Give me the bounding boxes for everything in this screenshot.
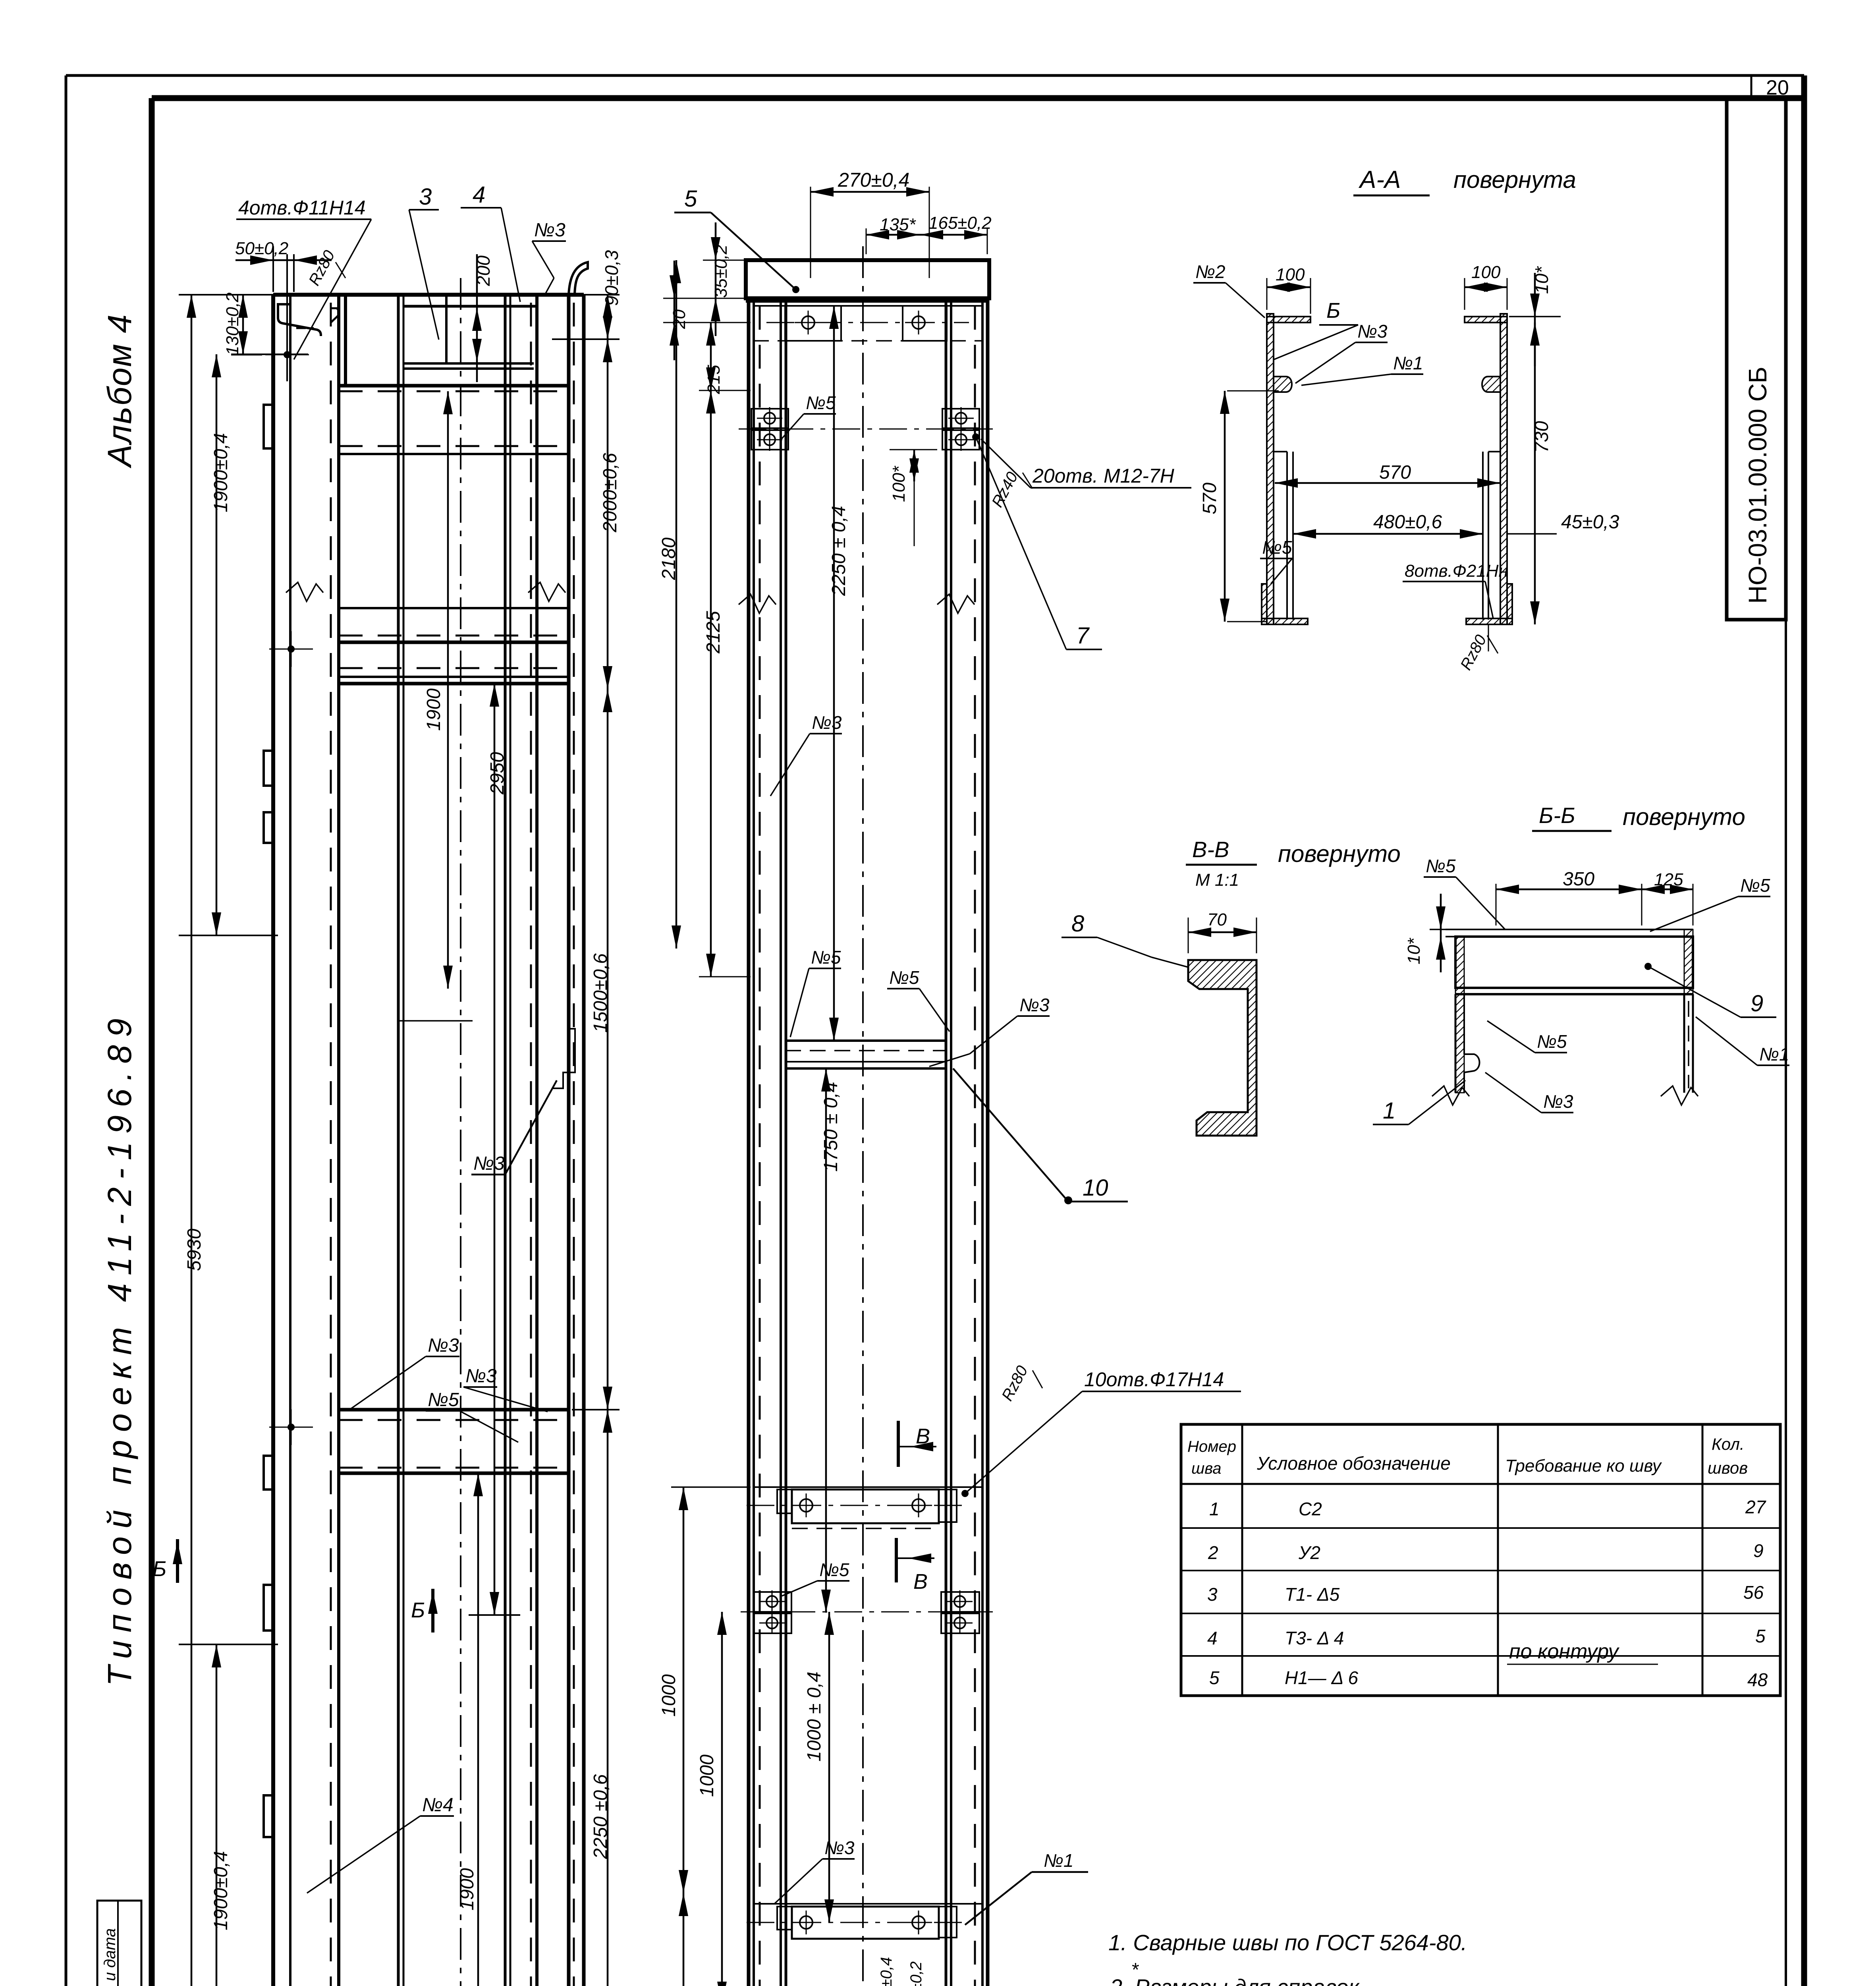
drawing frame (thick) xyxy=(152,95,1804,101)
svg-text:570: 570 xyxy=(1379,462,1411,483)
svg-text:2125: 2125 xyxy=(703,611,724,654)
view 2 top dimension 135* xyxy=(866,228,867,254)
svg-text:50 ±0,4: 50 ±0,4 xyxy=(878,1957,895,1986)
view 2 lower bolt blocks right xyxy=(941,1592,979,1612)
A-A dimension 100 left xyxy=(1266,278,1268,310)
svg-text:№3: №3 xyxy=(465,1366,497,1387)
svg-text:570: 570 xyxy=(1199,483,1220,514)
document number strip НО-03.01.00.000 СБ (vertical) xyxy=(1727,98,1786,620)
dimension 1500±0,6 xyxy=(607,689,609,1410)
svg-text:270±0,4: 270±0,4 xyxy=(838,169,909,191)
svg-text:90±0,3: 90±0,3 xyxy=(601,250,622,306)
svg-text:7: 7 xyxy=(1076,623,1090,649)
Б-Б right leg xyxy=(1683,994,1685,1093)
dimension 1900±0,4 upper xyxy=(231,354,308,355)
view 1 right rail xyxy=(530,303,532,1986)
sheet number box '20' xyxy=(1751,75,1752,98)
svg-text:№3: №3 xyxy=(534,220,566,241)
svg-text:200: 200 xyxy=(473,255,494,286)
svg-text:20отв. М12-7Н: 20отв. М12-7Н xyxy=(1032,465,1175,487)
svg-text:1900±0,4: 1900±0,4 xyxy=(210,433,232,512)
svg-text:С2: С2 xyxy=(1299,1499,1322,1519)
svg-text:25±0,2: 25±0,2 xyxy=(907,1961,925,1986)
dimension 1000 second xyxy=(721,1612,723,1986)
A-A left profile lug xyxy=(1274,377,1292,392)
svg-text:№4: №4 xyxy=(422,1795,454,1816)
svg-text:2180: 2180 xyxy=(658,537,679,580)
svg-text:730: 730 xyxy=(1531,421,1552,453)
svg-text:9: 9 xyxy=(1753,1540,1764,1561)
svg-text:35±0,2: 35±0,2 xyxy=(711,245,731,298)
dimension 1750±0,4 xyxy=(825,1068,827,1613)
svg-text:70: 70 xyxy=(1207,910,1227,929)
svg-text:№2: №2 xyxy=(1195,261,1225,282)
svg-text:2000±0,6: 2000±0,6 xyxy=(600,453,621,533)
section mark В (upper) xyxy=(897,1421,900,1467)
svg-text:№1: №1 xyxy=(1393,353,1423,373)
view 1 crossmember 5 (double) xyxy=(339,1408,569,1412)
svg-text:№1: №1 xyxy=(1759,1044,1789,1064)
view 1 break lines xyxy=(286,582,323,601)
svg-text:3: 3 xyxy=(1207,1584,1218,1605)
svg-text:№3: №3 xyxy=(1357,321,1388,342)
view 2 axis line xyxy=(862,246,864,1986)
svg-text:НО-03.01.00.000 СБ: НО-03.01.00.000 СБ xyxy=(1743,367,1772,604)
A-A right profile lug xyxy=(1482,377,1500,392)
A-A dimension 730 xyxy=(1534,323,1536,624)
A-A dimension 570 vertical xyxy=(1227,390,1279,392)
svg-text:5930: 5930 xyxy=(184,1229,205,1271)
svg-text:швов: швов xyxy=(1708,1459,1748,1477)
svg-text:5: 5 xyxy=(684,186,697,212)
svg-text:20: 20 xyxy=(670,309,689,329)
view 1 top partitions xyxy=(344,295,347,386)
view 2 right rail xyxy=(945,298,948,1986)
svg-text:Т1- Δ5: Т1- Δ5 xyxy=(1285,1584,1340,1605)
view 2 crossmember (upper) xyxy=(785,1039,947,1042)
svg-text:В: В xyxy=(916,1424,930,1448)
view 1 datum targets xyxy=(288,645,295,653)
section mark Б (inside view1) xyxy=(431,1589,434,1632)
svg-text:350: 350 xyxy=(1563,869,1594,890)
view 1: frame side elevation — left rail xyxy=(271,295,275,1986)
view 2 break lines xyxy=(739,594,776,613)
label №3 bracket mid right view1 xyxy=(552,1029,575,1088)
В-В channel profile xyxy=(1188,960,1256,1136)
dimension 2180 xyxy=(676,260,677,949)
svg-text:10отв.Ф17Н14: 10отв.Ф17Н14 xyxy=(1084,1368,1224,1391)
section mark В (lower) xyxy=(895,1538,898,1582)
svg-text:5: 5 xyxy=(1755,1626,1766,1646)
svg-text:9: 9 xyxy=(1751,991,1763,1016)
svg-text:100: 100 xyxy=(1471,263,1501,282)
svg-text:1900: 1900 xyxy=(423,688,444,731)
dimension 200 (view1 top inner) xyxy=(476,254,478,382)
svg-text:2950: 2950 xyxy=(487,752,508,795)
dimension 2000±0,6 xyxy=(607,339,609,689)
A-A right profile inner wall xyxy=(1482,452,1484,620)
svg-text:48: 48 xyxy=(1747,1669,1768,1690)
dimension 20 xyxy=(674,261,676,360)
svg-text:45±0,3: 45±0,3 xyxy=(1561,512,1619,533)
svg-text:по контуру: по контуру xyxy=(1509,1640,1619,1663)
svg-text:В-В: В-В xyxy=(1192,837,1229,862)
dimension 35±0,2 (plate) xyxy=(715,222,717,336)
svg-text:№5: №5 xyxy=(889,967,919,988)
view 2 top dimension 165±0,2 xyxy=(987,228,988,254)
svg-text:Т3- Δ 4: Т3- Δ 4 xyxy=(1285,1628,1344,1648)
Б-Б dimension 350 xyxy=(1496,884,1497,925)
svg-text:№5: №5 xyxy=(819,1559,849,1580)
svg-text:8отв.Ф21Нн: 8отв.Ф21Нн xyxy=(1405,561,1508,581)
svg-text:В: В xyxy=(913,1570,928,1594)
view 1 crossmember 4 xyxy=(339,667,569,669)
svg-text:3: 3 xyxy=(419,184,432,210)
view 2 top dimension 270±0,4 xyxy=(810,187,811,278)
svg-text:4: 4 xyxy=(1207,1628,1218,1648)
svg-text:Б: Б xyxy=(152,1557,166,1581)
view 1 crossmember 3 xyxy=(339,607,569,609)
A-A left profile pad xyxy=(1262,584,1267,618)
Б-Б left cap hatch xyxy=(1455,937,1464,994)
svg-text:№3: №3 xyxy=(428,1335,459,1356)
dimension 90±0,3 (right) xyxy=(607,295,609,339)
svg-text:56: 56 xyxy=(1743,1582,1764,1603)
svg-text:1750 ± 0,4: 1750 ± 0,4 xyxy=(820,1082,841,1172)
svg-text:№3: №3 xyxy=(1543,1091,1573,1112)
view 1 inner rib pair B xyxy=(504,295,507,1986)
A-A dimension 10* xyxy=(1534,273,1536,366)
svg-text:Б: Б xyxy=(1326,299,1340,323)
Б-Б top plate xyxy=(1446,929,1693,930)
view 2 crossmember at 850-level xyxy=(753,1903,983,1905)
dimension 1000 (between views) xyxy=(683,1487,685,1893)
Б-Б right cap hatch xyxy=(1684,929,1693,994)
dimension 50±0,2 top xyxy=(272,246,274,292)
A-A left profile web xyxy=(1267,314,1274,624)
view 1 inner rib pair A xyxy=(397,295,400,1986)
view 1 right rail top lip xyxy=(569,262,588,295)
A-A right profile web xyxy=(1500,314,1507,624)
В-В dimension 70 xyxy=(1188,918,1189,953)
svg-text:Альбом 4: Альбом 4 xyxy=(101,314,138,469)
A-A left profile bottom flange xyxy=(1262,618,1308,624)
A-A right profile bottom flange xyxy=(1466,618,1512,624)
A-A dimension 480±0,6 xyxy=(1293,489,1294,534)
svg-text:4отв.Ф11Н14: 4отв.Ф11Н14 xyxy=(238,197,366,219)
view 2 upper bolt blocks left xyxy=(751,409,788,428)
view 2 B-B crossmember xyxy=(753,1486,983,1488)
svg-text:130±0,2: 130±0,2 xyxy=(223,292,242,355)
svg-text:№3: №3 xyxy=(1019,995,1050,1015)
svg-text:100*: 100* xyxy=(889,466,909,502)
svg-text:1500±0,6: 1500±0,6 xyxy=(590,953,611,1033)
svg-text:Номер: Номер xyxy=(1187,1438,1236,1455)
view 1 crossmember 1 xyxy=(403,362,534,365)
svg-text:У2: У2 xyxy=(1298,1542,1320,1563)
svg-text:1900±0,4: 1900±0,4 xyxy=(210,1851,232,1930)
svg-text:5: 5 xyxy=(1209,1667,1220,1688)
svg-text:4: 4 xyxy=(473,182,485,208)
svg-text:1. Сварные швы по ГОСТ 526: 1. Сварные швы по ГОСТ 5264-80. xyxy=(1108,1930,1467,1955)
svg-text:повернута: повернута xyxy=(1453,166,1576,193)
svg-text:№5: №5 xyxy=(811,947,841,968)
dimension 1900±0,4 lower xyxy=(179,1644,278,1645)
dimension 2125 xyxy=(710,390,712,977)
svg-text:А-А: А-А xyxy=(1358,166,1401,193)
svg-text:№1: №1 xyxy=(1044,1850,1073,1871)
view 1 left rail tabs xyxy=(264,405,273,448)
svg-text:125: 125 xyxy=(1654,870,1683,889)
view 1 crossmember 2 (hidden) xyxy=(339,445,569,447)
svg-text:Б-Б: Б-Б xyxy=(1539,803,1575,828)
svg-text:2. Размеры для справок.: 2. Размеры для справок. xyxy=(1110,1974,1365,1986)
Б-Б dimension 125 xyxy=(1642,889,1693,891)
svg-text:Типовой проект 411-2-196.89: Типовой проект 411-2-196.89 xyxy=(101,1010,138,1686)
view 1 left rail top lip profile xyxy=(278,304,321,336)
dimension 215 xyxy=(710,323,712,390)
view 2 upper bolt blocks right xyxy=(942,409,979,428)
view 2 lower bolt blocks left xyxy=(753,1592,791,1612)
svg-text:№5: №5 xyxy=(428,1389,459,1410)
dimension 850 (outside) xyxy=(683,1893,685,1986)
A-A right profile top flange xyxy=(1465,317,1507,323)
A-A left profile inner wall xyxy=(1286,452,1288,620)
svg-text:№3: №3 xyxy=(473,1153,505,1174)
view 1 axis line xyxy=(460,278,461,1986)
svg-text:10*: 10* xyxy=(1531,266,1552,294)
inner right border line xyxy=(1785,98,1787,1986)
A-A dimension 570 horizontal xyxy=(1275,482,1500,484)
dimension 100* (view 2) xyxy=(913,450,915,481)
svg-text:20: 20 xyxy=(1766,76,1789,99)
svg-text:27: 27 xyxy=(1745,1497,1766,1517)
left margin column boxes xyxy=(97,1901,141,1986)
svg-text:8: 8 xyxy=(1071,911,1084,937)
dimension 5930 (view 1 overall) xyxy=(179,294,620,296)
Б-Б main member body xyxy=(1455,937,1693,988)
dimension 1900 (view1 inner) xyxy=(447,391,449,989)
svg-text:100: 100 xyxy=(1276,265,1305,284)
svg-text:№3: №3 xyxy=(824,1837,855,1858)
В-В leader 8 xyxy=(1152,957,1188,967)
dimension 2250±0,4 (inside view 2) xyxy=(833,306,835,1041)
section mark Б (left of view1) xyxy=(176,1539,179,1583)
svg-text:2250 ±0,6: 2250 ±0,6 xyxy=(590,1774,611,1859)
svg-text:Кол.: Кол. xyxy=(1712,1435,1745,1453)
A-A left profile top flange xyxy=(1267,317,1310,323)
Б-Б left leg xyxy=(1455,994,1457,1093)
svg-text:480±0,6: 480±0,6 xyxy=(1373,512,1442,533)
svg-text:1900: 1900 xyxy=(457,1868,478,1911)
svg-text:Условное обозначение: Условное обозначение xyxy=(1256,1453,1451,1474)
sheet outer border xyxy=(66,74,1804,77)
svg-text:2250 ± 0,4: 2250 ± 0,4 xyxy=(828,506,849,596)
svg-text:*: * xyxy=(1131,1959,1139,1980)
view 1 top edge xyxy=(273,293,584,297)
dimension 2250±0,6 (view1 right, lower) xyxy=(607,1410,609,1986)
svg-text:Подп. и дата: Подп. и дата xyxy=(101,1928,119,1986)
svg-text:№5: №5 xyxy=(1537,1031,1567,1052)
A-A dimension 100 right xyxy=(1464,278,1465,310)
svg-text:1000 ± 0,4: 1000 ± 0,4 xyxy=(804,1671,825,1762)
svg-text:повернуто: повернуто xyxy=(1623,804,1745,830)
svg-text:10: 10 xyxy=(1083,1175,1108,1201)
svg-text:№5: №5 xyxy=(1740,875,1770,896)
weld table frame xyxy=(1181,1424,1780,1696)
view 2 left rail xyxy=(747,298,751,1986)
view 2: frame plan view — top plate xyxy=(746,260,989,298)
svg-text:Требование ко шву: Требование ко шву xyxy=(1505,1456,1662,1476)
svg-text:№5: №5 xyxy=(806,392,836,413)
dimension 1900 (view1 inner, lower) xyxy=(477,1473,479,1986)
dimension 1000±0,4 (inside) xyxy=(828,1612,830,1922)
svg-text:1: 1 xyxy=(1209,1499,1220,1519)
dimension 2950 xyxy=(494,684,496,1615)
A-A right profile pad xyxy=(1507,584,1512,618)
svg-text:135*: 135* xyxy=(880,215,916,234)
svg-text:№3: №3 xyxy=(812,712,842,733)
svg-text:Б: Б xyxy=(411,1598,425,1622)
svg-text:№5: №5 xyxy=(1262,537,1292,558)
svg-text:1: 1 xyxy=(1383,1098,1395,1124)
svg-text:1000: 1000 xyxy=(697,1754,718,1797)
svg-text:№5: №5 xyxy=(1426,856,1456,876)
svg-text:М 1:1: М 1:1 xyxy=(1195,870,1239,890)
svg-text:повернуто: повернуто xyxy=(1278,840,1401,867)
svg-text:Н1— Δ 6: Н1— Δ 6 xyxy=(1285,1667,1359,1688)
svg-text:1000: 1000 xyxy=(658,1674,679,1717)
svg-text:165±0,2: 165±0,2 xyxy=(928,213,992,233)
svg-text:10*: 10* xyxy=(1404,937,1424,964)
view 2 top clamp blocks xyxy=(753,305,983,307)
svg-text:50±0,2: 50±0,2 xyxy=(235,239,288,258)
svg-text:шва: шва xyxy=(1191,1460,1221,1477)
Б-Б dimension 10* xyxy=(1430,929,1453,930)
dimension 130±0,2 xyxy=(242,295,244,354)
svg-text:2: 2 xyxy=(1208,1542,1218,1563)
